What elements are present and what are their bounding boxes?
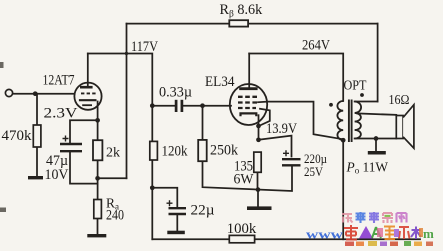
capacitor 22u	[169, 207, 187, 209]
wire 13.9V node to 220u	[259, 136, 292, 157]
svg-text:264V: 264V	[302, 38, 331, 54]
resistor 135 6W	[254, 152, 261, 172]
wire EL34 cathode lead	[258, 115, 260, 140]
svg-text:25V: 25V	[304, 164, 324, 179]
watermark extra blobs	[377, 228, 423, 237]
svg-text:100k: 100k	[227, 221, 257, 237]
wire 12AT7 cathode lead	[97, 102, 99, 121]
node 2k bottom	[95, 176, 100, 181]
tube EL34	[230, 84, 267, 125]
12AT7 cathode bar	[79, 99, 97, 101]
svg-text:120k: 120k	[162, 144, 189, 160]
ground 135	[247, 206, 272, 210]
ground speaker	[368, 151, 386, 155]
wire OPT primary bottom to rail	[342, 140, 344, 239]
resistor 470k	[33, 125, 41, 147]
wire EL34 plate line 264V	[249, 54, 343, 102]
node 0.33u left	[150, 103, 155, 108]
stray mark left edge upper	[0, 62, 4, 68]
wire secondary tap to speaker	[357, 113, 396, 115]
wire secondary top to riser	[355, 101, 378, 103]
svg-text:Po 11W: Po 11W	[346, 160, 389, 176]
svg-text:12AT7: 12AT7	[43, 72, 75, 88]
watermark row1 char5	[397, 213, 407, 223]
wire 135R bottom lead	[257, 172, 259, 189]
wire g2 to transformer	[258, 102, 343, 140]
wire 12AT7 plate lead	[87, 54, 89, 86]
svg-text:EL34: EL34	[205, 74, 235, 90]
wire 120k chain	[151, 106, 153, 240]
svg-text:10V: 10V	[45, 167, 70, 183]
wire bottom rail	[152, 238, 420, 240]
node EL34 grid	[200, 103, 205, 108]
svg-text:2k: 2k	[106, 145, 120, 160]
svg-text:0.33µ: 0.33µ	[159, 85, 192, 101]
12AT7 heater bar	[82, 104, 92, 106]
svg-text:6W: 6W	[234, 172, 255, 188]
watermark row2 char green	[372, 227, 381, 238]
wire 0.33u left	[152, 105, 175, 107]
ground Ra	[87, 234, 106, 237]
resistor 2k	[93, 140, 102, 160]
wire 22u to ground bar	[176, 216, 178, 231]
wire feedback vertical down-left	[126, 24, 128, 179]
node OPT primary bottom	[341, 138, 346, 143]
svg-text:OPT: OPT	[344, 78, 368, 93]
watermark row2 char teal	[411, 227, 421, 240]
watermark row1 char4	[382, 213, 393, 223]
svg-text:240: 240	[106, 208, 124, 224]
wire 2k chain	[97, 120, 99, 199]
EL34 plate bar	[239, 87, 257, 90]
wire EL34 plate lead	[248, 54, 250, 88]
input terminal	[5, 89, 12, 96]
resistor 120k	[150, 141, 158, 160]
OPT phase dot primary	[329, 103, 333, 107]
EL34 grid3 dashes	[238, 107, 256, 109]
svg-text:Rβ 8.6k: Rβ 8.6k	[220, 2, 264, 20]
capacitor 47u	[60, 143, 82, 145]
svg-text:13.9V: 13.9V	[266, 121, 298, 137]
12AT7 grid dashes	[81, 92, 96, 94]
EL34 grid2 dashes	[238, 101, 258, 103]
svg-text:117V: 117V	[131, 39, 159, 55]
wire 22u branch	[152, 188, 177, 207]
resistor 250k	[198, 140, 207, 161]
wire 470k hang	[36, 94, 38, 125]
svg-text:2.3V: 2.3V	[44, 106, 79, 122]
wire input	[13, 93, 75, 95]
wire 250k hang	[202, 106, 204, 140]
resistor Ra 240	[94, 200, 102, 219]
watermark row1 char2	[356, 212, 366, 223]
watermark row2 char purple triangle	[359, 226, 373, 239]
node input junction	[33, 91, 38, 96]
svg-text:m: m	[423, 226, 434, 241]
svg-text:22µ: 22µ	[191, 203, 215, 219]
wire g3 step	[259, 109, 270, 126]
wire 12AT7 plate line 117V	[88, 54, 153, 106]
watermark row2 char orange	[384, 227, 395, 240]
wire cathode node to feedback	[98, 177, 127, 179]
watermark bottom fringe	[345, 241, 433, 246]
node 120k bottom 22u	[150, 185, 155, 190]
wire 250k bottom to node line	[203, 161, 293, 191]
watermark row1 char1	[342, 214, 353, 223]
node EL34 cathode upper	[256, 124, 261, 129]
capacitor 220u	[282, 158, 301, 160]
wire Ra to ground	[97, 219, 99, 234]
ground 22u	[167, 231, 185, 235]
wire 47u bottom	[70, 153, 98, 184]
stray mark left edge lower	[0, 208, 6, 213]
resistor 100k	[229, 235, 254, 242]
EL34 grid1 dashes	[238, 96, 259, 98]
wire cathode to 47u cap	[70, 120, 98, 143]
wire secondary bottom to speaker	[355, 138, 397, 140]
svg-text:www: www	[306, 227, 344, 242]
wire top feedback rail	[127, 23, 378, 25]
watermark row1 char3	[369, 212, 379, 223]
speaker 16ohm	[396, 116, 403, 139]
svg-text:16Ω: 16Ω	[389, 92, 410, 107]
wire speaker common to ground	[375, 139, 377, 151]
node 135R bottom	[256, 187, 261, 192]
resistor R-feedback 8.6k	[229, 20, 248, 26]
node EL34 cathode lower	[256, 137, 261, 142]
ground 470k	[28, 176, 43, 179]
node crossover blob 117V line	[125, 52, 128, 55]
transformer core	[348, 100, 350, 143]
wire 135R node to ground	[257, 190, 259, 207]
12AT7 plate bar	[80, 86, 93, 89]
tube 12AT7	[74, 83, 101, 110]
watermark row2 char red	[344, 225, 358, 240]
wire 0.33u right to EL34 grid	[183, 105, 232, 107]
watermark row2 char red2	[399, 227, 410, 239]
capacitor 0.33u	[175, 100, 178, 112]
transformer OPT primary coil	[337, 101, 343, 140]
node 12AT7 cathode	[95, 118, 100, 123]
svg-text:470k: 470k	[2, 128, 33, 144]
EL34 cathode bar	[241, 113, 257, 116]
transformer OPT secondary coil	[355, 102, 362, 139]
wire riser to secondary top	[377, 24, 379, 102]
OPT phase dot secondary	[360, 93, 364, 97]
wire 470k to ground	[36, 147, 38, 176]
svg-text:250k: 250k	[210, 143, 239, 159]
node speaker common	[374, 136, 379, 141]
